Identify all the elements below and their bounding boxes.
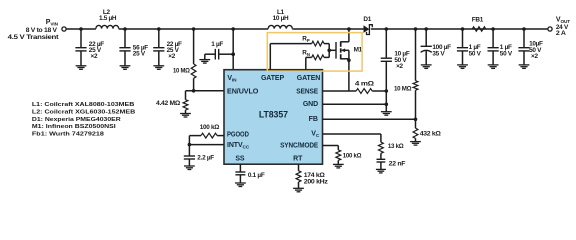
svg-text:×2: ×2 xyxy=(396,63,403,70)
svg-text:2 A: 2 A xyxy=(556,30,566,37)
svg-text:10 MΩ: 10 MΩ xyxy=(173,67,190,74)
svg-text:4.42 MΩ: 4.42 MΩ xyxy=(156,100,180,107)
svg-text:8 V to 18 V: 8 V to 18 V xyxy=(26,27,58,34)
svg-text:SYNC/MODE: SYNC/MODE xyxy=(280,142,318,149)
svg-text:0.1 µF: 0.1 µF xyxy=(248,172,265,179)
svg-text:4.5 V Transient: 4.5 V Transient xyxy=(8,34,60,41)
svg-text:×2: ×2 xyxy=(168,53,175,60)
svg-text:M1: Infineon BSZ0500NSI: M1: Infineon BSZ0500NSI xyxy=(32,124,116,130)
svg-text:FB: FB xyxy=(309,116,318,123)
svg-text:22 nF: 22 nF xyxy=(389,160,406,167)
svg-text:50 V: 50 V xyxy=(469,51,482,58)
svg-text:GATEP: GATEP xyxy=(261,75,285,82)
svg-text:13 kΩ: 13 kΩ xyxy=(388,143,404,150)
svg-text:432 kΩ: 432 kΩ xyxy=(420,130,441,137)
svg-text:Fb1: Wurth 74279218: Fb1: Wurth 74279218 xyxy=(32,131,104,137)
svg-text:L1: Coilcraft XAL8080-103MEB: L1: Coilcraft XAL8080-103MEB xyxy=(32,102,134,108)
svg-text:1 µF: 1 µF xyxy=(211,41,223,48)
svg-text:2.2 µF: 2.2 µF xyxy=(197,154,214,161)
svg-text:GATEN: GATEN xyxy=(297,75,321,82)
svg-text:25 V: 25 V xyxy=(133,50,146,57)
svg-text:100 kΩ: 100 kΩ xyxy=(200,124,219,131)
svg-text:L2: Coilcraft XGL6030-152MEB: L2: Coilcraft XGL6030-152MEB xyxy=(32,110,135,116)
svg-text:100 kΩ: 100 kΩ xyxy=(343,153,362,160)
svg-text:RT: RT xyxy=(293,155,303,162)
svg-text:SS: SS xyxy=(235,155,245,162)
svg-text:200 kHz: 200 kHz xyxy=(304,179,328,186)
svg-text:1.5 µH: 1.5 µH xyxy=(99,15,117,22)
svg-text:35 V: 35 V xyxy=(432,50,445,57)
svg-text:×2: ×2 xyxy=(91,53,98,60)
svg-text:PGOOD: PGOOD xyxy=(227,131,249,138)
svg-text:D1: Nexperia PMEG4030ER: D1: Nexperia PMEG4030ER xyxy=(32,117,121,123)
svg-text:GND: GND xyxy=(303,101,318,108)
svg-text:4 mΩ: 4 mΩ xyxy=(355,80,374,87)
svg-text:10 µH: 10 µH xyxy=(273,15,289,22)
svg-text:M1: M1 xyxy=(354,46,363,53)
svg-text:LT8357: LT8357 xyxy=(259,110,288,121)
svg-text:50 V: 50 V xyxy=(500,50,513,57)
svg-text:D1: D1 xyxy=(363,16,371,23)
svg-text:EN/UVLO: EN/UVLO xyxy=(227,88,259,95)
svg-text:×2: ×2 xyxy=(531,53,538,60)
svg-text:SENSE: SENSE xyxy=(296,88,318,95)
svg-text:FB1: FB1 xyxy=(472,16,484,23)
svg-text:10 MΩ: 10 MΩ xyxy=(394,86,411,93)
